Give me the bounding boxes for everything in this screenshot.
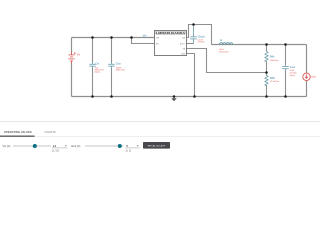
- wire GND path: [187, 54, 195, 97]
- wire Cout leads: [285, 45, 287, 97]
- wire bottom ground rail: [72, 96, 307, 98]
- svg-text:Vin: Vin: [143, 34, 147, 38]
- svg-text:100kOhm: 100kOhm: [270, 60, 279, 62]
- svg-text:OPERATING VALUES: OPERATING VALUES: [4, 130, 32, 134]
- node junction dots: [91, 23, 287, 98]
- wire FB path: [187, 49, 267, 73]
- slider 1 thumb: [33, 144, 37, 148]
- capacitor Cboot: [190, 25, 205, 44]
- active tab underline: [0, 136, 35, 137]
- svg-text:Cin: Cin: [95, 63, 99, 66]
- svg-text:3mOhm: 3mOhm: [198, 41, 205, 43]
- svg-text:Rfbb: Rfbb: [270, 77, 276, 80]
- wire right vertical (load branch): [306, 45, 308, 97]
- button RECALCULATE: [143, 142, 170, 149]
- svg-text:CHARTS: CHARTS: [45, 130, 57, 134]
- svg-text:[0, 50]: [0, 50]: [52, 149, 59, 152]
- slider 2 thumb: [118, 144, 122, 148]
- svg-text:RECALCULATE: RECALCULATE: [148, 144, 166, 147]
- svg-text:SW: SW: [182, 38, 185, 40]
- svg-text:Cout: Cout: [290, 66, 296, 69]
- wire Rfbb leads: [266, 73, 268, 97]
- svg-text:(2pcs): (2pcs): [290, 75, 296, 77]
- ground: [171, 97, 177, 102]
- svg-text:Vout (V): Vout (V): [71, 144, 81, 148]
- svg-text:Iout: Iout: [311, 75, 316, 79]
- wire left vertical (source branch): [71, 38, 73, 97]
- svg-text:LMR23610ADDA: LMR23610ADDA: [156, 31, 185, 35]
- tab bar bottom border: [0, 135, 320, 138]
- voltage source V1 Vin: [68, 52, 81, 64]
- op-amp U1 LMR23610ADDA (IC box): [155, 31, 187, 56]
- svg-text:BOOT: BOOT: [180, 43, 186, 45]
- wire SW to top loop: [187, 25, 212, 45]
- wire Rfbt leads: [266, 45, 268, 73]
- svg-text:Rfbt: Rfbt: [270, 55, 275, 58]
- wire top rail Vin: [72, 37, 155, 39]
- wire EN step: [132, 38, 155, 44]
- svg-text:408mOhm: 408mOhm: [116, 70, 126, 72]
- capacitor Cin: [89, 62, 104, 74]
- svg-text:GND: GND: [181, 53, 186, 55]
- resistor Rfbb: [265, 76, 279, 86]
- svg-text:24: 24: [53, 144, 57, 148]
- wire Cin1 vertical: [92, 38, 94, 97]
- current source load Iout: [303, 73, 316, 80]
- svg-text:22.1kOhm: 22.1kOhm: [270, 81, 280, 83]
- wire Cin2 vertical: [111, 38, 113, 97]
- panel top border: [0, 120, 320, 123]
- slider 1 track: [13, 145, 51, 147]
- inductor L1: [219, 39, 233, 53]
- slider 2 track: [85, 145, 124, 147]
- capacitor Cinx: [108, 62, 125, 72]
- svg-text:[0, 5]: [0, 5]: [126, 149, 132, 152]
- svg-text:Vin (V): Vin (V): [3, 144, 11, 148]
- wire Vout rail: [212, 44, 307, 46]
- resistor Rfbt: [265, 52, 279, 62]
- wire BOOT pin stub: [187, 43, 194, 45]
- svg-text:60.8mOhm: 60.8mOhm: [219, 51, 229, 53]
- svg-text:Cinx: Cinx: [116, 63, 122, 66]
- capacitor Cout: [282, 64, 297, 77]
- svg-text:Cboot: Cboot: [198, 35, 205, 38]
- svg-text:(3pcs): (3pcs): [95, 72, 101, 74]
